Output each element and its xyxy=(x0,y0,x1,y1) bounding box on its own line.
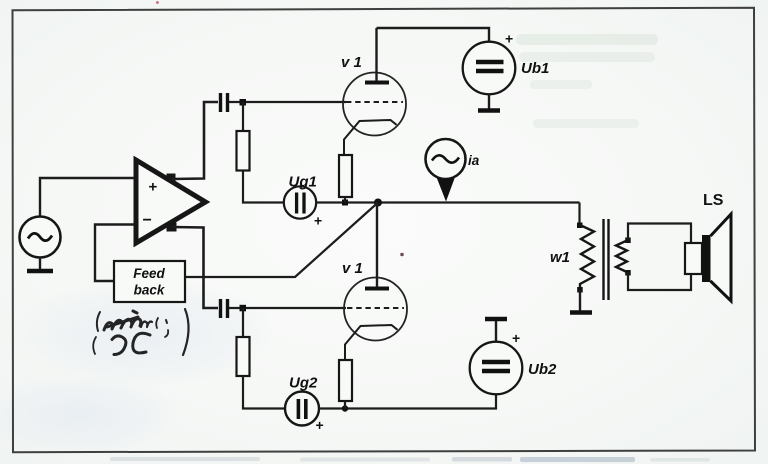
svg-text:+: + xyxy=(316,417,324,433)
signal source (AC) xyxy=(20,217,61,258)
svg-text:LS: LS xyxy=(703,192,724,209)
primary winding xyxy=(580,225,594,289)
svg-text:back: back xyxy=(134,283,166,298)
wire: top tap to upper coupling capacitor xyxy=(171,102,218,179)
core xyxy=(602,219,604,300)
wire: lower cathode resistor to bottom rail xyxy=(344,401,346,409)
primary top node xyxy=(577,223,583,229)
svg-text:Ub1: Ub1 xyxy=(521,60,549,77)
transformer w1 xyxy=(550,219,631,313)
output tap square (top edge) xyxy=(167,174,176,182)
wire: bottom rail (Ug2 to Ub2) xyxy=(319,395,496,409)
capacitor (lower coupling) xyxy=(221,299,228,318)
wire: junction down to upper grid resistor xyxy=(242,102,244,132)
svg-text:v 1: v 1 xyxy=(342,260,363,277)
secondary bottom node xyxy=(625,270,631,276)
primary bottom node xyxy=(577,287,583,293)
svg-text:+: + xyxy=(505,31,513,47)
wire: capacitor to upper tube grid xyxy=(229,101,346,103)
output tap square (bottom edge) xyxy=(167,223,177,232)
wire: feedback input from output junction (diagonal) xyxy=(185,203,378,278)
svg-text:w1: w1 xyxy=(550,249,570,266)
wire: Ub1 to ground xyxy=(488,95,490,110)
secondary top node xyxy=(625,238,631,244)
secondary winding xyxy=(616,240,628,273)
source Ug1 xyxy=(284,174,322,229)
node (upper cathode resistor junction) xyxy=(342,200,348,206)
wire: resistor to Ug2 xyxy=(243,376,285,409)
wire: inverting input to feedback output xyxy=(95,225,136,282)
primary to ground xyxy=(579,290,581,311)
capacitor (upper coupling) xyxy=(221,93,228,112)
node (upper grid junction) xyxy=(240,99,247,106)
resistor (lower cathode) xyxy=(339,360,352,401)
source Ub1 xyxy=(463,31,550,95)
wire: secondary loop to loudspeaker xyxy=(628,224,691,291)
feedback block xyxy=(114,261,185,302)
wire: signal source to op-amp + input xyxy=(40,178,136,217)
tube v1 (lower) xyxy=(342,203,407,362)
svg-text:+: + xyxy=(512,330,520,346)
ground (signal source) xyxy=(27,269,53,274)
resistor (upper cathode) xyxy=(339,155,352,197)
meter ia xyxy=(426,139,480,202)
svg-text:+: + xyxy=(314,213,322,229)
wire: capacitor to lower tube grid xyxy=(229,307,346,309)
node (lower cathode resistor junction) xyxy=(342,405,348,411)
tube v1 (upper) xyxy=(341,28,406,156)
wire: resistor to Ug1 xyxy=(243,171,284,203)
wire: Ub2 to top terminal xyxy=(495,319,497,342)
ground (transformer) xyxy=(570,310,592,315)
source Ug2 xyxy=(285,375,324,434)
handwritten annotation "(mains) DC" xyxy=(93,309,188,355)
wire: bottom tap to lower coupling capacitor xyxy=(171,227,218,308)
svg-text:Ug1: Ug1 xyxy=(289,174,317,191)
resistor (upper grid) xyxy=(237,131,250,171)
svg-text:v 1: v 1 xyxy=(341,54,362,71)
source Ub2 xyxy=(470,330,557,394)
wire: main anode rail (Ug1 to transformer) xyxy=(316,201,580,203)
svg-text:Feed: Feed xyxy=(133,266,165,281)
svg-text:−: − xyxy=(143,212,152,229)
terminal bar (Ub2) xyxy=(485,317,507,322)
svg-text:ia: ia xyxy=(468,153,480,168)
op-amp driver xyxy=(136,160,206,243)
loudspeaker LS xyxy=(685,192,731,301)
wire: upper anode to Ub1 xyxy=(377,28,490,42)
resistor (lower grid) xyxy=(237,337,250,376)
svg-text:+: + xyxy=(149,179,158,196)
svg-text:Ug2: Ug2 xyxy=(289,375,318,392)
wire: junction down to lower grid resistor xyxy=(242,308,244,338)
node (lower grid junction) xyxy=(240,305,247,312)
ground (Ub1) xyxy=(478,108,500,113)
svg-text:Ub2: Ub2 xyxy=(528,361,557,378)
wire: upper cathode resistor to rail xyxy=(344,197,346,203)
wire: signal source to ground xyxy=(39,258,41,271)
node (output junction) xyxy=(374,199,382,207)
wire: rail corner down to transformer primary xyxy=(578,203,580,226)
